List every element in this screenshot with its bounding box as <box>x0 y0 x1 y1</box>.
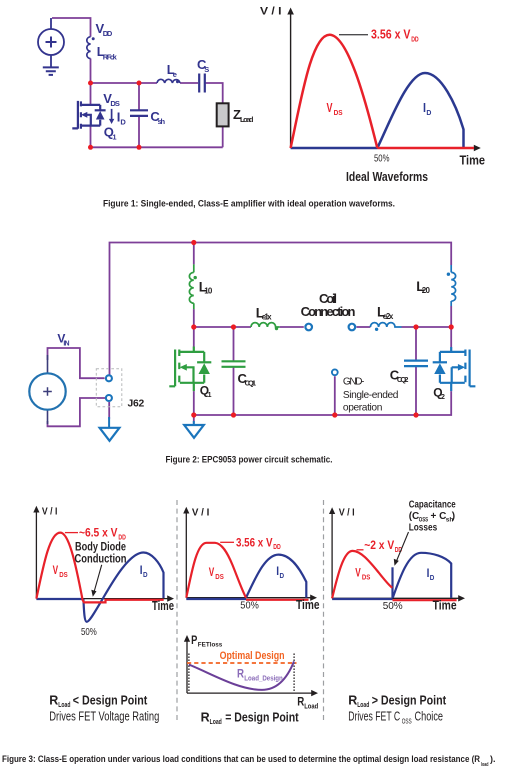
svg-text:Optimal Design: Optimal Design <box>220 650 285 662</box>
svg-text:Load: Load <box>58 700 70 709</box>
svg-text:Connection: Connection <box>301 304 356 319</box>
svg-text:50%: 50% <box>383 600 403 612</box>
svg-text:load: load <box>481 762 489 768</box>
svg-text:Conduction: Conduction <box>75 554 127 566</box>
svg-text:~6.5 x V: ~6.5 x V <box>79 525 118 539</box>
svg-text:Losses: Losses <box>409 523 438 534</box>
svg-text:e1x: e1x <box>262 313 273 322</box>
svg-text:D: D <box>426 108 432 117</box>
svg-text:D: D <box>430 575 435 582</box>
svg-text:RFck: RFck <box>103 53 118 62</box>
svg-text:Body Diode: Body Diode <box>75 542 126 554</box>
svg-text:Load_Design: Load_Design <box>244 676 282 683</box>
svg-text:DD: DD <box>411 34 419 43</box>
svg-text:> Design Point: > Design Point <box>372 693 447 707</box>
svg-text:P: P <box>191 635 197 647</box>
svg-text:DS: DS <box>362 575 371 582</box>
svg-text:3.56 x V: 3.56 x V <box>236 535 273 549</box>
svg-text:20: 20 <box>422 286 431 295</box>
svg-text:D: D <box>143 572 148 579</box>
svg-text:50%: 50% <box>240 600 258 612</box>
svg-text:S: S <box>204 65 209 74</box>
svg-text:DD: DD <box>103 29 113 38</box>
svg-text:Figure 1: Single-ended, Class-: Figure 1: Single-ended, Class-E amplifie… <box>103 199 395 209</box>
svg-text:DS: DS <box>110 99 120 108</box>
svg-text:DS: DS <box>215 574 224 581</box>
svg-text:1: 1 <box>208 392 212 399</box>
svg-text:Time: Time <box>433 599 457 613</box>
svg-text:e2x: e2x <box>383 312 394 321</box>
svg-text:J62: J62 <box>128 399 145 410</box>
svg-text:R: R <box>49 693 58 707</box>
svg-text:Ideal Waveforms: Ideal Waveforms <box>346 169 428 184</box>
svg-text:D: D <box>120 118 126 127</box>
svg-text:GND-: GND- <box>343 377 365 388</box>
svg-text:Choice: Choice <box>415 709 444 724</box>
svg-text:DD: DD <box>273 542 281 551</box>
svg-text:= Design Point: = Design Point <box>225 711 299 725</box>
svg-text:10: 10 <box>204 286 213 295</box>
svg-text:50%: 50% <box>374 153 390 165</box>
svg-text:Figure 3: Class-E operation un: Figure 3: Class-E operation under variou… <box>2 754 480 764</box>
svg-text:V: V <box>209 565 215 579</box>
svg-text:3.56 x V: 3.56 x V <box>371 27 411 41</box>
svg-text:V: V <box>53 563 59 577</box>
svg-text:< Design Point: < Design Point <box>73 693 148 707</box>
svg-text:2: 2 <box>441 394 445 401</box>
svg-text:Drives FET Voltage Rating: Drives FET Voltage Rating <box>49 709 159 724</box>
svg-text:V / I: V / I <box>42 506 58 518</box>
svg-text:Load: Load <box>357 700 369 709</box>
svg-text:Load: Load <box>304 704 318 711</box>
svg-text:V: V <box>327 100 333 115</box>
svg-text:).: ). <box>490 754 496 764</box>
svg-text:): ) <box>452 511 455 522</box>
svg-text:Time: Time <box>296 598 320 612</box>
svg-text:CQ1: CQ1 <box>245 378 257 387</box>
svg-text:e: e <box>173 70 177 79</box>
svg-text:FETloss: FETloss <box>198 642 223 649</box>
svg-text:OSS: OSS <box>402 718 412 725</box>
svg-text:sh: sh <box>158 117 166 126</box>
svg-text:V / I: V / I <box>192 507 210 519</box>
svg-text:Single-ended: Single-ended <box>343 390 399 401</box>
svg-text:R: R <box>201 711 210 725</box>
svg-text:Load: Load <box>240 115 254 124</box>
svg-text:DS: DS <box>334 108 343 117</box>
svg-text:Drives FET C: Drives FET C <box>348 709 400 724</box>
svg-text:DD: DD <box>118 532 126 541</box>
svg-text:1: 1 <box>112 133 116 142</box>
svg-text:V: V <box>355 566 361 580</box>
svg-text:V / I: V / I <box>339 507 355 519</box>
svg-text:Time: Time <box>152 599 174 613</box>
svg-text:Figure 2: EPC9053 power circui: Figure 2: EPC9053 power circuit schemati… <box>166 455 333 465</box>
svg-text:Load: Load <box>210 717 222 726</box>
svg-text:DS: DS <box>59 572 68 579</box>
svg-text:IN: IN <box>63 341 69 348</box>
svg-text:D: D <box>280 573 285 580</box>
svg-text:Capacitance: Capacitance <box>409 500 456 511</box>
svg-text:50%: 50% <box>81 626 97 638</box>
svg-text:R: R <box>348 693 357 707</box>
svg-text:CQ2: CQ2 <box>397 375 409 384</box>
svg-text:V / I: V / I <box>260 6 282 18</box>
svg-text:~2 x V: ~2 x V <box>364 538 394 552</box>
svg-text:Time: Time <box>460 154 486 168</box>
svg-text:(C: (C <box>409 511 420 522</box>
svg-text:+ C: + C <box>431 511 447 522</box>
svg-text:operation: operation <box>343 403 383 414</box>
